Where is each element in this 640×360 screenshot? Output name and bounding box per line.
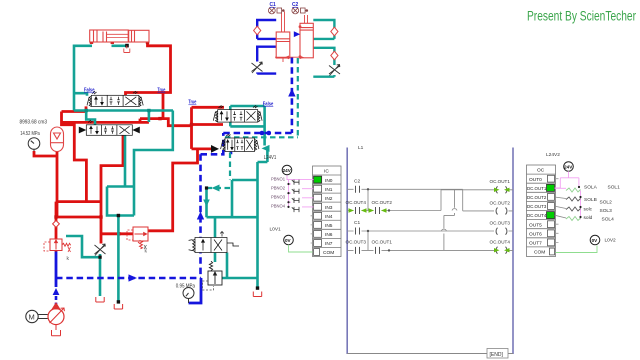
svg-text:IN1: IN1 [325, 187, 333, 193]
pushbutton PB4 contact [292, 207, 299, 212]
pump [48, 303, 64, 324]
wire ladder left rail [346, 148, 348, 355]
wire teal loop (C2) [313, 20, 334, 77]
sensor C2 [292, 7, 308, 14]
arrow teal into valve4 right [262, 145, 270, 152]
breather under cylinder [124, 46, 130, 53]
wire pilot header y133 [223, 132, 292, 135]
vertical cylinders C1 C2 sub-circuit [252, 2, 341, 77]
svg-text:C2: C2 [354, 179, 360, 185]
svg-text:IC: IC [324, 169, 329, 175]
wire pilot jog to x223 [201, 133, 224, 154]
wire relief3 return to tank [222, 277, 258, 280]
prop valve (2/2 proportional) [189, 232, 239, 253]
svg-text:False: False [84, 88, 95, 94]
accumulator [51, 127, 64, 152]
check diamond (red) on teal loop upper [331, 27, 338, 36]
wire prop valve to relief3 [215, 253, 227, 279]
svg-text:L0V2: L0V2 [605, 238, 617, 244]
wire True branch down [162, 93, 165, 119]
svg-text:0.95 MPa: 0.95 MPa [176, 283, 195, 289]
svg-text:L24V1: L24V1 [264, 155, 277, 161]
relief1 (red relief valve) [44, 239, 71, 252]
pushbutton PB1 contact [292, 180, 299, 185]
wire accumulator header y217 [56, 216, 100, 219]
solenoid SOLA zigzag [566, 188, 581, 192]
pin terminals IN1-IN7 [314, 185, 322, 255]
wire pilot header y137 [225, 136, 298, 138]
svg-text:14.52 MPa: 14.52 MPa [20, 131, 40, 137]
check diamond (red) on teal loop lower [331, 51, 338, 60]
wire green COM wire [289, 245, 313, 252]
pin OUT terminals right side [547, 175, 555, 255]
wire valve4 right output down to tank [256, 162, 259, 288]
svg-text:OUT6: OUT6 [529, 232, 542, 238]
contact OC.OUT4 (active) [349, 207, 367, 214]
wire pump riser [55, 252, 58, 288]
svg-text:C2: C2 [292, 2, 298, 8]
teal pilot left arrow [212, 185, 220, 192]
svg-text:Present By ScienTecher: Present By ScienTecher [527, 9, 636, 24]
contact OC.OUT2 (active) [369, 207, 387, 214]
supply 0V circle (L0V1) [284, 235, 294, 245]
svg-text:24V: 24V [283, 168, 292, 173]
svg-text:L0V1: L0V1 [270, 227, 282, 233]
svg-text:IN7: IN7 [325, 241, 333, 247]
svg-text:IN5: IN5 [325, 223, 333, 229]
pump flow arrows [53, 288, 60, 295]
tank2 x118 [114, 304, 122, 309]
wire prop valve header y217.2 [207, 188, 258, 238]
gauge1 14.52 MPa [28, 138, 40, 151]
coil OC.OUT3 [496, 228, 507, 235]
svg-text:OC.OUT1: OC.OUT1 [372, 239, 393, 244]
wire cylinder rod-port to valve1 B [126, 42, 171, 96]
solenoid labels [584, 184, 621, 222]
svg-text:[END]: [END] [490, 352, 504, 358]
wire valve4 pilot stub [230, 140, 233, 154]
svg-text:OC.OUT4: OC.OUT4 [346, 200, 367, 205]
svg-text:DC.OUT2: DC.OUT2 [527, 195, 547, 200]
svg-text:True: True [188, 100, 196, 106]
arrow into valve4 (black) [211, 145, 219, 153]
wire under cylinder ports 2-3 [112, 44, 127, 47]
cylinder C1 vertical [276, 12, 290, 59]
valve V4 (4/3 DCV) [221, 134, 259, 152]
tank3 x256 [253, 292, 261, 297]
blue motion arrow [294, 31, 300, 37]
svg-text:8993.68 cm3: 8993.68 cm3 [20, 120, 48, 126]
svg-text:OC.OUT4: OC.OUT4 [490, 239, 511, 244]
svg-text:M: M [29, 312, 35, 321]
wire: teal lines [66, 46, 270, 302]
wire teal header y110.5 [74, 111, 173, 126]
wire red header y122.4 [62, 119, 149, 123]
pin stubs IC unused rows [311, 216, 314, 252]
solenoid sold zigzag [566, 217, 581, 221]
svg-text:PBNO4: PBNO4 [271, 204, 285, 210]
wire tank drop x118 [117, 216, 120, 302]
throttle X teal line [329, 65, 340, 76]
wire red header y118.6 [140, 119, 192, 126]
throttle X blue line [252, 62, 263, 73]
wire pink button wiring [287, 175, 314, 207]
wire jog y180 [232, 180, 258, 217]
module IC input block [313, 166, 342, 257]
svg-text:PBNO3: PBNO3 [271, 195, 285, 201]
supply 24V circle (L24V1) [282, 165, 292, 175]
svg-text:SOL1: SOL1 [608, 184, 621, 190]
svg-text:IN4: IN4 [325, 214, 333, 220]
valve V2 (4/3 DCV with end arrows) [79, 120, 140, 135]
svg-text:IN2: IN2 [325, 196, 333, 202]
check diamond (red) on blue loop [254, 26, 261, 35]
valve V1 (4/3 DCV) [87, 91, 143, 107]
svg-text:SOL3: SOL3 [600, 208, 613, 214]
wire pilot drop x230 [229, 153, 231, 181]
svg-text:SOLB: SOLB [584, 197, 597, 203]
check diamond above relief1 [53, 221, 60, 228]
svg-text:solc: solc [584, 207, 593, 213]
svg-text:OUT5: OUT5 [529, 222, 542, 228]
svg-text:C1: C1 [270, 2, 276, 8]
coil OC.OUT1 (active) [494, 186, 510, 193]
svg-text:IN3: IN3 [325, 205, 333, 211]
svg-text:OC.OUT2: OC.OUT2 [490, 200, 511, 205]
svg-text:DC.OUT4: DC.OUT4 [527, 213, 547, 218]
END box [487, 349, 508, 359]
svg-text:OC.OUT1: OC.OUT1 [490, 179, 511, 184]
teal junction dots [85, 44, 260, 304]
wire ladder right rail [512, 148, 514, 355]
relief2 (red pressure valve) [127, 227, 148, 249]
wire throttle to tank [99, 254, 102, 296]
wire bottom header y201.6 [56, 202, 101, 217]
junction red dots [54, 41, 193, 236]
wire blue loop upper (check) [257, 20, 276, 74]
wire pilot riser to C1 [291, 57, 294, 133]
supply 0V circle (L0V2) [590, 235, 600, 245]
teal down arrow on x206.5 [203, 200, 210, 207]
svg-text:C1: C1 [354, 220, 360, 226]
wire pilot to prop valve [207, 187, 231, 189]
svg-text:COM: COM [534, 250, 545, 256]
wire valve2 bottom to relief area [101, 136, 123, 244]
svg-text:PBNO1: PBNO1 [271, 177, 285, 183]
wire: red pressure lines [34, 42, 224, 252]
sensor C1 [268, 7, 284, 14]
pushbutton PB2 contact [292, 189, 299, 194]
wire gauge2 branch [189, 278, 202, 303]
rung 1 wires [347, 189, 513, 250]
cylinder C2 vertical [300, 15, 313, 58]
wire valve1 left feed [62, 106, 87, 201]
svg-text:SOL4: SOL4 [602, 217, 615, 223]
svg-text:COM: COM [323, 250, 334, 256]
wire riser to relief1 [55, 217, 58, 252]
module OC output block [527, 165, 556, 257]
contact C1 [356, 228, 360, 235]
svg-text:IN0: IN0 [325, 178, 333, 184]
blue junction dots [260, 131, 265, 136]
tank1 x100 [96, 297, 104, 302]
contact OC.OUT3 [356, 247, 360, 254]
supply 24V circle (L24V2) [564, 162, 574, 172]
svg-text:L1: L1 [358, 145, 364, 151]
blue arrows [129, 274, 138, 281]
coil OC.OUT2 [496, 208, 507, 215]
valve V3 (4/3 DCV springs) [213, 106, 262, 123]
svg-text:OC: OC [537, 168, 545, 174]
svg-text:OUT0: OUT0 [529, 177, 542, 183]
tank under pump [52, 325, 61, 336]
svg-text:PBNO2: PBNO2 [271, 186, 285, 192]
wire: teal dashed pilots [207, 58, 298, 188]
pushbutton PB3 contact [292, 198, 299, 203]
wire main pump dashed header [56, 277, 201, 280]
svg-text:0V: 0V [285, 238, 292, 243]
wire valve outputs staircase to lower-left [107, 111, 173, 216]
red thin port line under cylinders [275, 57, 300, 62]
wire cylinder port1 to valve1 A [74, 46, 92, 111]
svg-text:OUT7: OUT7 [529, 241, 542, 247]
wire relief1 return [66, 236, 100, 257]
pushbutton labels [271, 177, 285, 210]
wire pink 24V supply wiring [555, 171, 581, 219]
svg-text:L24V2: L24V2 [546, 152, 560, 158]
contact C2 [356, 186, 360, 193]
svg-text:SOL2: SOL2 [600, 199, 613, 205]
svg-text:OC.OUT3: OC.OUT3 [490, 221, 511, 226]
junction dots solenoid rail [578, 186, 582, 218]
throttle X on tank line [95, 244, 106, 256]
wire relief2 feed [100, 232, 133, 235]
wire green COM to 0V [556, 246, 598, 253]
wire teal box around valve3 [230, 106, 267, 162]
pin IN0 terminal (green) [314, 176, 322, 183]
solenoid SOLB zigzag [566, 197, 581, 201]
wire pilot riser x200.5 [199, 154, 202, 278]
wire right cluster riser [192, 107, 225, 149]
wire gray solenoid rows [555, 197, 567, 218]
wire ladder bottom line [347, 353, 513, 355]
motor M [26, 310, 48, 322]
relief3 (black relief valve) [203, 261, 223, 290]
svg-text:True: True [157, 88, 165, 94]
svg-text:sold: sold [584, 215, 593, 221]
svg-text:False: False [263, 101, 274, 107]
wire: blue pilot dashed [56, 57, 292, 278]
cylinder (horizontal double) [90, 30, 149, 42]
svg-text:OC.OUT2: OC.OUT2 [372, 200, 393, 205]
coil OC.OUT4 (active) [494, 247, 510, 254]
svg-text:DC.OUT3: DC.OUT3 [527, 204, 547, 209]
junction dots ladder [367, 188, 390, 251]
junction dots on button rail [287, 183, 289, 208]
gauge2 0.95 MPa [183, 288, 194, 304]
solenoid solc zigzag [566, 207, 581, 211]
wire gauge-accumulator line [34, 151, 57, 217]
svg-text:0V: 0V [592, 238, 599, 243]
svg-text:SOLA: SOLA [584, 184, 598, 190]
wire C2 pilot riser [297, 58, 299, 137]
wire: blue solid segments [56, 252, 201, 304]
svg-text:OC.OUT3: OC.OUT3 [346, 239, 367, 244]
svg-text:24V: 24V [564, 165, 573, 170]
pin stubs OC unused rows [556, 179, 559, 243]
contact OC.OUT1b [376, 247, 380, 254]
svg-text:DC.OUT1: DC.OUT1 [527, 186, 547, 191]
svg-text:IN6: IN6 [325, 232, 333, 238]
